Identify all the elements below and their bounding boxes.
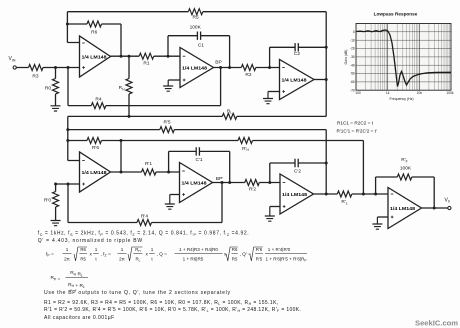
resistor R'L [337, 191, 352, 197]
svg-text:R′6: R′6 [92, 145, 99, 151]
resistor R'6 (A1' feedback) [68, 141, 121, 173]
svg-text:R6: R6 [80, 247, 86, 252]
svg-text:R1C1 = R2C2 = t: R1C1 = R2C2 = t [337, 120, 374, 125]
svg-text:BP: BP [215, 60, 222, 66]
wire: A1 minus node left vertical [67, 12, 79, 43]
svg-text:R6: R6 [232, 247, 238, 252]
svg-text:1/4 LM148: 1/4 LM148 [182, 65, 207, 71]
svg-text:R5: R5 [232, 256, 238, 261]
svg-text:R5: R5 [80, 256, 86, 261]
svg-text:Use the BP outputs to tune Q,: Use the BP outputs to tune Q, Q′, tune t… [44, 290, 231, 296]
ground (U6 plus input) [270, 206, 280, 208]
svg-text:All capacitors are 0.001μF: All capacitors are 0.001μF [44, 315, 115, 321]
svg-text:R′1 = R′2 = 50.9K, R′4 = R′5 =: R′1 = R′2 = 50.9K, R′4 = R′5 = 100K, R′6… [44, 307, 301, 313]
op-amp U6 (1/4 LM148) section 2 second integrator [280, 174, 314, 214]
wire: A1' plus input [56, 183, 80, 185]
svg-text:1/4 LM148: 1/4 LM148 [82, 170, 107, 176]
resistor R'H (HP' to A4 sum node) [121, 141, 363, 195]
resistor R5 [188, 9, 203, 15]
svg-text:1: 1 [151, 247, 154, 252]
svg-text:t: t [151, 256, 153, 261]
wire: HP' output to U5 minus [111, 171, 180, 173]
svg-text:R2: R2 [245, 72, 251, 78]
svg-text:1: 1 [121, 247, 124, 252]
svg-text:SeekIC.com: SeekIC.com [415, 319, 458, 328]
svg-text:100K: 100K [400, 165, 412, 171]
op-amp U5 (1/4 LM148) section 2 first integrator [180, 163, 213, 203]
svg-text:1 + R6|R5: 1 + R6|R5 [183, 256, 204, 261]
svg-text:Frequency (Hz): Frequency (Hz) [389, 97, 413, 101]
resistor R'5 [160, 127, 175, 133]
svg-text:C2: C2 [294, 51, 300, 57]
resistor R'1 [142, 169, 157, 175]
svg-text:2π: 2π [119, 256, 125, 261]
ground (U3 plus input) [268, 91, 280, 93]
wire/resistor R4: BP feedback to A1 plus input [68, 68, 221, 106]
svg-text:VIN: VIN [9, 56, 16, 62]
wire: A1' minus node left vertical [68, 130, 80, 161]
svg-text:R4: R4 [95, 97, 101, 103]
svg-text:-60: -60 [350, 80, 355, 84]
svg-text:V0: V0 [445, 197, 450, 203]
svg-text:R′2: R′2 [249, 187, 256, 193]
svg-text:2π: 2π [64, 256, 70, 261]
ground (U5 plus input) [170, 194, 180, 196]
svg-text:R′5: R′5 [163, 120, 170, 126]
svg-text:R1 = R2 = 92.6K, R3 = R4 = R5: R1 = R2 = 92.6K, R3 = R4 = R5 = 100K, R6… [44, 300, 279, 306]
wire: R5 feedback top wire (LP out to A1 minus node) [67, 11, 326, 13]
svg-text:C′1: C′1 [195, 157, 202, 163]
svg-text:RP =: RP = [51, 275, 61, 282]
node: R4 junction [67, 66, 70, 69]
node VIN input terminal [13, 66, 16, 69]
resistor R6 (A1 feedback) [67, 24, 121, 56]
svg-text:R5: R5 [193, 15, 199, 21]
wire/resistor R'4: BP' feedback to A1' plus [68, 183, 222, 223]
formula: Rp [51, 270, 89, 289]
svg-text:, Q =: , Q = [157, 251, 168, 257]
resistor R2 [241, 65, 256, 71]
capacitor C'2 [270, 163, 326, 183]
svg-text:R′6: R′6 [256, 247, 263, 252]
ground (R'0) [51, 221, 61, 226]
svg-text:1: 1 [95, 247, 98, 252]
svg-text:Gain (dB): Gain (dB) [344, 50, 348, 65]
svg-text:R′L: R′L [341, 199, 347, 205]
resistor R'F 100K (A4 feedback) [376, 177, 435, 208]
node: C2 branch junction [268, 66, 271, 69]
svg-text:RH RL: RH RL [70, 270, 83, 277]
wire: LP output of U3 to right vertical [314, 79, 326, 81]
node: RH junction on HP wire [128, 55, 131, 58]
node: R0 junction [54, 66, 57, 69]
resistor R3 [29, 65, 44, 71]
svg-text:-70: -70 [350, 88, 355, 92]
svg-text:-30: -30 [350, 55, 355, 59]
svg-text:RH + RL: RH + RL [68, 282, 85, 289]
svg-text:R0: R0 [45, 85, 51, 91]
svg-text:RH: RH [135, 247, 140, 253]
op-amp U1 (1/4 LM148) summing amp [80, 36, 111, 77]
op-amp U4 (1/4 LM148) section 2 summing amp [80, 152, 111, 192]
svg-text:x: x [146, 252, 149, 257]
svg-text:1/4 LM148: 1/4 LM148 [282, 77, 307, 83]
resistor RL (LP to notch sum) [222, 113, 237, 119]
svg-text:R3: R3 [32, 73, 38, 79]
formula: fp, fz, Q, Q-prime [46, 247, 307, 263]
svg-text:10k: 10k [417, 91, 423, 95]
svg-text:1/4 LM148: 1/4 LM148 [82, 54, 107, 60]
svg-text:R′0: R′0 [44, 198, 51, 204]
wire: right vertical from top wire to LP output and line A [325, 12, 327, 117]
resistor RH (HP to notch sum line) [128, 56, 130, 116]
svg-text:R′1C′1 = R′2C′2 = t′: R′1C′1 = R′2C′2 = t′ [337, 128, 377, 133]
ground (R0) [51, 106, 61, 111]
op-amp U7 (1/4 LM148) output amplifier [388, 188, 422, 229]
svg-text:x: x [90, 252, 93, 257]
op-amp U3 (1/4 LM148) second integrator [280, 60, 315, 100]
wire: BP to U3 minus input [214, 67, 280, 69]
svg-text:R′F: R′F [401, 157, 407, 163]
svg-text:1/4 LM148: 1/4 LM148 [182, 180, 207, 186]
svg-text:-10: -10 [350, 38, 355, 42]
svg-text:, Q′ =: , Q′ = [240, 251, 252, 257]
svg-text:1 + R′4|R′0: 1 + R′4|R′0 [268, 247, 291, 252]
svg-text:Q′ = 4.403, normalized to ripp: Q′ = 4.403, normalized to ripple BW [38, 238, 143, 244]
resistor R'0 to ground [55, 184, 57, 221]
svg-text:1k: 1k [386, 91, 390, 95]
svg-text:R′H: R′H [242, 146, 249, 152]
capacitor C1 (integrator U2) [168, 36, 230, 68]
svg-text:RL: RL [227, 108, 232, 114]
node: R6 junction [66, 23, 69, 26]
svg-text:1 + R4|R3 + R4|R0: 1 + R4|R3 + R4|R0 [179, 247, 218, 252]
svg-text:100K: 100K [190, 25, 202, 31]
svg-text:100k: 100k [446, 91, 454, 95]
svg-text:R′5: R′5 [256, 256, 263, 261]
svg-text:1 + R′6|R′5 + R′6|RP: 1 + R′6|R′5 + R′6|RP [265, 256, 306, 262]
node V0 output terminal [448, 206, 451, 209]
svg-text:R′1: R′1 [145, 161, 152, 167]
svg-text:1: 1 [66, 247, 69, 252]
svg-text:1/4 LM148: 1/4 LM148 [282, 192, 307, 198]
svg-text:100: 100 [355, 91, 361, 95]
svg-text:C′2: C′2 [294, 169, 301, 175]
svg-text:R′4: R′4 [141, 213, 148, 219]
resistor R0 to ground [55, 68, 57, 106]
svg-text:C1: C1 [198, 43, 204, 49]
wire: VIN to A1 plus input [16, 67, 79, 69]
resistor R'2 [245, 180, 260, 186]
svg-text:fP​ =: fP​ = [46, 251, 54, 257]
svg-text:-40: -40 [350, 63, 355, 67]
ground (U2 plus input) [168, 79, 180, 81]
svg-text:1/4 LM148: 1/4 LM148 [390, 206, 415, 212]
wire: HP output of U1 to U2 minus input [111, 55, 181, 57]
frequency response graph: Lowpass Response [344, 11, 454, 101]
svg-text:R1: R1 [143, 60, 149, 66]
wire: BP' to U6 minus input [213, 182, 281, 184]
capacitor C2 (integrator U3) [270, 47, 327, 67]
svg-text:0: 0 [353, 30, 355, 34]
wire: V0 output [422, 207, 448, 209]
resistor R1 [139, 53, 154, 59]
svg-text:RL: RL [135, 256, 140, 262]
op-amp U2 (1/4 LM148) first integrator [180, 48, 214, 88]
svg-text:Lowpass Response: Lowpass Response [374, 11, 418, 16]
svg-text:-50: -50 [350, 72, 355, 76]
wire: notch summing line A (RH/RL sum to section 2 input) [68, 116, 326, 129]
svg-text:, fZ​ =: , fZ​ = [101, 251, 111, 257]
svg-text:R6: R6 [91, 29, 97, 35]
svg-text:fC​ = 1kHz, fS​ = 2kHz, fP​ =: fC​ = 1kHz, fS​ = 2kHz, fP​ = 0.543, fZ​… [38, 231, 250, 237]
svg-text:-20: -20 [350, 47, 355, 51]
ground (U7 plus input) [377, 216, 388, 218]
capacitor C'1 [169, 151, 230, 182]
node: C1 branch junction [167, 55, 170, 58]
node: R6 down junction [120, 55, 123, 58]
wire: LP' output to output amp [314, 193, 389, 195]
svg-text:t: t [95, 256, 97, 261]
wire: right vertical 2 (LP' output) [325, 130, 327, 194]
svg-text:RH: RH [119, 85, 125, 91]
wire: R5' feedback wire (line B) [68, 129, 326, 131]
